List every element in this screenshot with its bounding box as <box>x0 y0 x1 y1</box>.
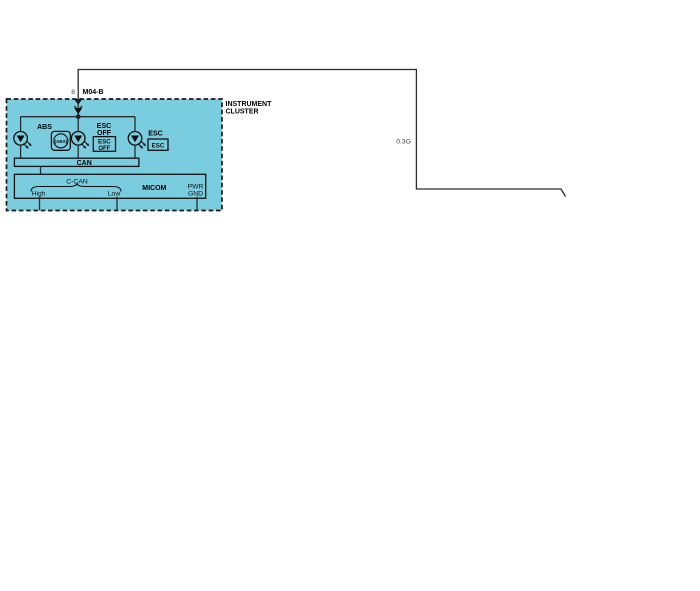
svg-text:CLUSTER: CLUSTER <box>226 109 259 116</box>
wire CAN to MICOM box <box>40 166 42 174</box>
svg-text:0.3G: 0.3G <box>396 139 411 146</box>
wire High out <box>39 197 41 211</box>
wire cluster entry to junction <box>77 99 79 117</box>
svg-text:M04-B: M04-B <box>83 89 104 96</box>
wire PWR GND out <box>196 197 198 211</box>
connector glyph cluster top entry <box>74 99 82 110</box>
svg-text:ESC: ESC <box>148 130 162 137</box>
wire lamp bus <box>21 116 135 118</box>
svg-text:ESC: ESC <box>97 123 111 130</box>
svg-text:8: 8 <box>71 89 75 96</box>
svg-text:OFF: OFF <box>98 145 111 152</box>
ABS telltale box <box>51 131 70 150</box>
wire drop to ESC OFF lamp <box>77 117 79 132</box>
instrument cluster box <box>7 99 223 211</box>
wire M04-B pin8 to IPM rail (top run) <box>78 70 565 197</box>
wire ESC OFF lamp to CAN bar <box>77 145 79 158</box>
svg-text:OFF: OFF <box>97 130 112 137</box>
junction dot top bus <box>76 114 81 119</box>
wire Low out <box>116 197 118 211</box>
wire drop to ABS lamp <box>20 117 22 132</box>
wire drop to ESC lamp <box>134 117 136 132</box>
lamp ESC OFF indicator <box>71 132 89 149</box>
wire ABS lamp to CAN bar <box>20 145 22 158</box>
brace C-CAN <box>31 184 121 192</box>
direction arrow on entry wire <box>74 108 82 115</box>
ESC telltale box <box>148 139 168 150</box>
svg-text:ABS: ABS <box>37 124 52 131</box>
svg-text:MICOM: MICOM <box>142 185 166 192</box>
MICOM box <box>14 174 205 198</box>
svg-text:GND: GND <box>188 190 203 197</box>
svg-text:INSTRUMENT: INSTRUMENT <box>226 101 273 108</box>
wire ESC lamp to CAN bar <box>134 145 136 158</box>
svg-text:High: High <box>32 190 46 197</box>
CAN bus bar <box>14 158 138 166</box>
ESC OFF telltale box <box>93 137 115 152</box>
lamp ESC indicator <box>128 132 146 149</box>
svg-text:CAN: CAN <box>77 160 92 167</box>
svg-text:Low: Low <box>108 190 121 197</box>
svg-text:ESC: ESC <box>152 143 165 150</box>
svg-text:(ABS): (ABS) <box>54 139 67 144</box>
lamp ABS indicator <box>14 132 32 149</box>
